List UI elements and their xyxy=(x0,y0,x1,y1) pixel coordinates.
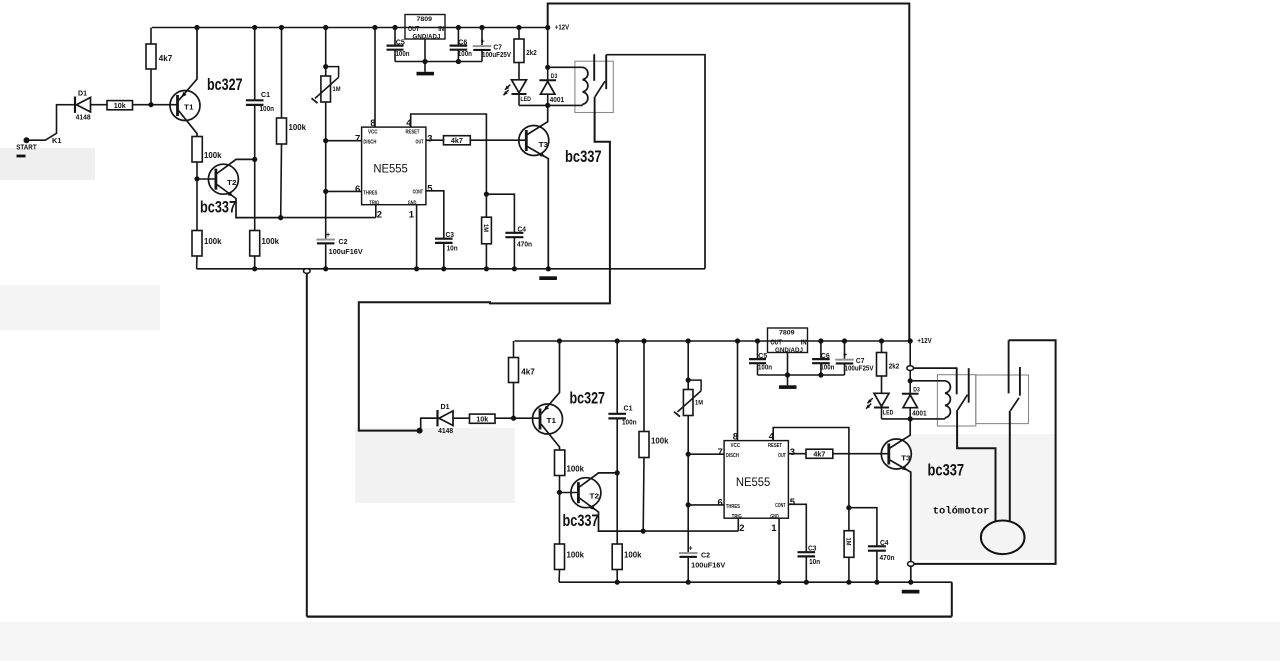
svg-text:C1: C1 xyxy=(261,92,270,99)
svg-text:NE555: NE555 xyxy=(373,162,408,176)
svg-text:START: START xyxy=(16,143,37,152)
svg-text:IN: IN xyxy=(438,26,444,33)
svg-text:4k7: 4k7 xyxy=(451,136,463,145)
svg-text:7809: 7809 xyxy=(417,16,433,23)
svg-text:1: 1 xyxy=(771,523,777,534)
svg-text:GND/ADJ: GND/ADJ xyxy=(775,347,803,354)
svg-text:GND: GND xyxy=(408,201,417,207)
svg-text:+: + xyxy=(688,546,692,553)
svg-text:1: 1 xyxy=(409,210,415,221)
svg-text:T1: T1 xyxy=(184,103,194,112)
svg-text:100n: 100n xyxy=(758,363,772,372)
svg-text:CONT: CONT xyxy=(413,190,423,196)
svg-text:10k: 10k xyxy=(476,415,489,424)
svg-text:K1: K1 xyxy=(52,138,62,145)
svg-text:C3: C3 xyxy=(446,232,455,239)
svg-text:4148: 4148 xyxy=(438,428,453,435)
svg-text:4001: 4001 xyxy=(550,97,565,104)
svg-text:bc337: bc337 xyxy=(928,461,965,480)
svg-text:GND/ADJ: GND/ADJ xyxy=(413,34,441,41)
svg-text:4k7: 4k7 xyxy=(521,368,535,377)
svg-text:1M: 1M xyxy=(844,538,851,546)
svg-text:100k: 100k xyxy=(651,436,669,446)
svg-text:100n: 100n xyxy=(458,49,472,58)
svg-text:OUT: OUT xyxy=(408,26,420,33)
svg-text:C5: C5 xyxy=(758,351,767,360)
svg-text:5: 5 xyxy=(790,497,796,508)
svg-text:OUT: OUT xyxy=(771,340,783,347)
svg-text:tolómotor: tolómotor xyxy=(933,506,990,518)
svg-text:100n: 100n xyxy=(396,49,410,58)
svg-text:RESET: RESET xyxy=(406,129,420,135)
svg-text:C3: C3 xyxy=(808,546,817,553)
svg-text:T2: T2 xyxy=(590,492,600,501)
svg-text:T3: T3 xyxy=(901,454,911,463)
svg-text:3: 3 xyxy=(427,133,432,144)
svg-text:7: 7 xyxy=(355,133,360,144)
svg-text:2k2: 2k2 xyxy=(889,362,900,371)
svg-text:C2: C2 xyxy=(339,239,348,246)
svg-text:100uF25V: 100uF25V xyxy=(845,364,874,373)
svg-text:6: 6 xyxy=(718,498,723,509)
svg-text:DISCH: DISCH xyxy=(726,453,739,459)
svg-text:DISCH: DISCH xyxy=(363,140,376,146)
svg-text:100k: 100k xyxy=(262,236,280,246)
svg-text:+12V: +12V xyxy=(917,336,931,345)
svg-text:C4: C4 xyxy=(880,540,889,547)
svg-text:100uF16V: 100uF16V xyxy=(691,563,725,570)
svg-text:OUT: OUT xyxy=(778,453,786,459)
svg-text:100n: 100n xyxy=(820,363,834,372)
svg-text:TRIG: TRIG xyxy=(732,514,742,520)
svg-text:bc337: bc337 xyxy=(565,147,602,166)
svg-text:2: 2 xyxy=(739,523,744,534)
svg-text:+12V: +12V xyxy=(555,23,569,32)
svg-text:10k: 10k xyxy=(114,101,127,110)
svg-text:C5: C5 xyxy=(396,37,405,46)
svg-text:GND: GND xyxy=(770,514,779,520)
svg-text:100k: 100k xyxy=(567,464,585,474)
svg-text:100n: 100n xyxy=(622,420,637,427)
svg-text:TRIG: TRIG xyxy=(369,201,379,207)
svg-text:LED: LED xyxy=(520,96,531,103)
svg-text:LED: LED xyxy=(883,410,894,417)
svg-text:4148: 4148 xyxy=(76,115,91,122)
svg-text:100k: 100k xyxy=(624,549,642,559)
svg-text:D3: D3 xyxy=(913,387,920,394)
svg-text:4k7: 4k7 xyxy=(813,450,825,459)
svg-text:D3: D3 xyxy=(551,73,558,80)
svg-text:bc327: bc327 xyxy=(570,389,606,408)
svg-text:470n: 470n xyxy=(517,242,532,249)
svg-text:+: + xyxy=(480,39,484,46)
svg-text:+: + xyxy=(326,232,330,239)
svg-text:3: 3 xyxy=(790,447,795,458)
svg-text:100k: 100k xyxy=(204,236,222,246)
svg-text:THRES: THRES xyxy=(363,190,378,196)
svg-text:VCC: VCC xyxy=(368,129,378,135)
svg-text:100uF25V: 100uF25V xyxy=(482,50,511,59)
svg-text:10n: 10n xyxy=(447,246,458,253)
svg-text:VCC: VCC xyxy=(731,443,741,449)
svg-text:C2: C2 xyxy=(701,553,710,560)
svg-text:OUT: OUT xyxy=(416,140,424,146)
svg-text:D1: D1 xyxy=(441,404,450,411)
svg-text:1M: 1M xyxy=(333,86,341,93)
svg-text:100k: 100k xyxy=(289,122,307,132)
svg-text:7809: 7809 xyxy=(779,330,795,337)
svg-text:T3: T3 xyxy=(539,140,549,149)
svg-text:C6: C6 xyxy=(821,351,830,360)
svg-text:C6: C6 xyxy=(458,37,467,46)
svg-text:7: 7 xyxy=(718,447,723,458)
svg-text:C4: C4 xyxy=(518,227,527,234)
svg-text:2k2: 2k2 xyxy=(526,48,537,57)
svg-text:D1: D1 xyxy=(78,91,87,98)
svg-text:100n: 100n xyxy=(260,106,275,113)
svg-text:CONT: CONT xyxy=(775,503,785,509)
svg-text:T2: T2 xyxy=(227,178,237,187)
svg-text:2: 2 xyxy=(377,210,382,221)
svg-text:4k7: 4k7 xyxy=(159,54,173,63)
svg-text:T1: T1 xyxy=(547,416,557,425)
svg-text:THRES: THRES xyxy=(726,504,741,510)
svg-text:100k: 100k xyxy=(204,150,222,160)
svg-text:NE555: NE555 xyxy=(736,475,771,489)
svg-text:1M: 1M xyxy=(482,224,489,232)
svg-text:6: 6 xyxy=(355,184,360,195)
svg-text:470n: 470n xyxy=(880,555,895,562)
svg-text:C1: C1 xyxy=(624,406,633,413)
svg-text:4001: 4001 xyxy=(912,411,927,418)
svg-text:100k: 100k xyxy=(567,549,585,559)
svg-text:bc327: bc327 xyxy=(207,75,243,94)
svg-text:+: + xyxy=(843,352,847,359)
svg-text:RESET: RESET xyxy=(768,443,782,449)
svg-text:5: 5 xyxy=(427,183,433,194)
svg-text:10n: 10n xyxy=(809,559,820,566)
svg-text:bc337: bc337 xyxy=(200,198,236,217)
svg-text:100uF16V: 100uF16V xyxy=(329,249,363,256)
svg-text:IN: IN xyxy=(801,340,807,347)
svg-text:bc337: bc337 xyxy=(563,511,599,530)
svg-text:1M: 1M xyxy=(695,400,703,407)
